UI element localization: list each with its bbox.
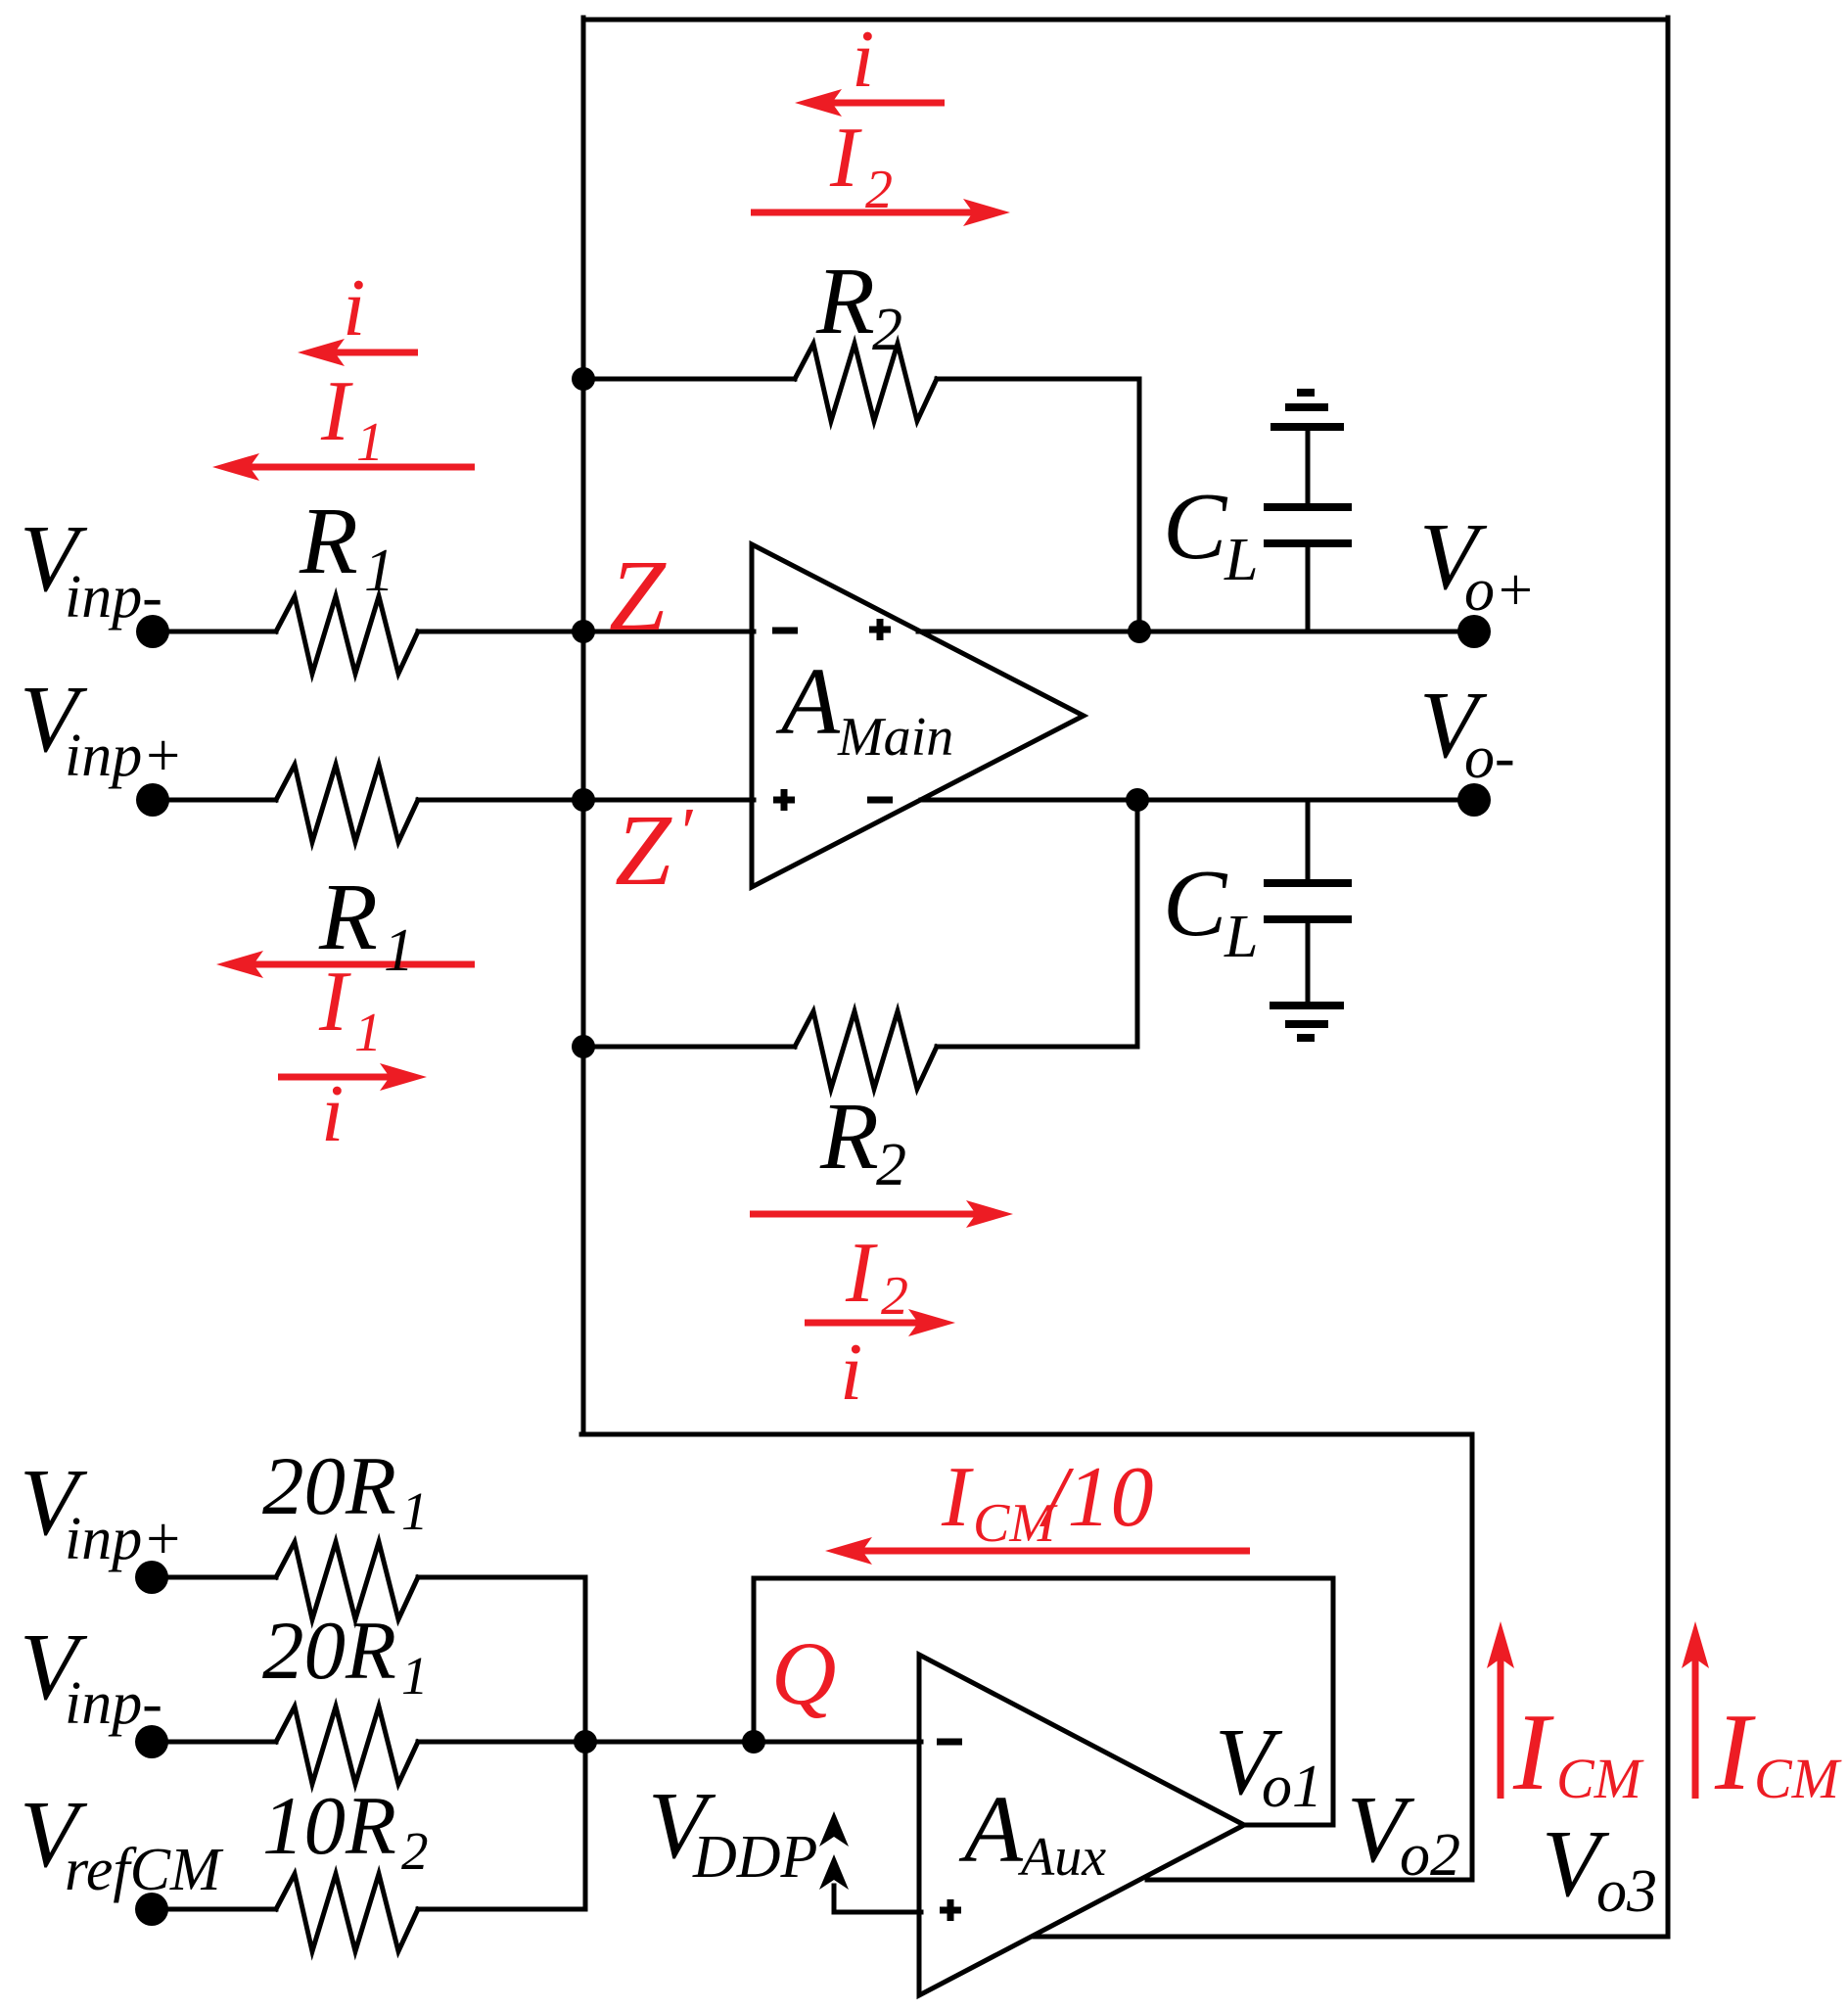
capacitor CL bottom plates xyxy=(1264,883,1352,919)
terminal Vinp+ (aux) dot xyxy=(135,1561,168,1594)
capacitor CL bottom stem lower xyxy=(1306,919,1311,1005)
wire top border of outer feedback loop xyxy=(583,18,1668,23)
wire Vinp- aux terminal to resistor 20R1 lower xyxy=(156,1740,276,1745)
svg-text:i: i xyxy=(321,1068,344,1159)
red arrow I2 (top R2, rightward) xyxy=(751,210,994,216)
wire output Vo2 from A_Aux slope xyxy=(1147,1878,1472,1883)
svg-text:I: I xyxy=(941,1450,974,1545)
terminal VrefCM dot xyxy=(135,1893,168,1926)
node Z-prime junction xyxy=(572,788,595,812)
svg-text:A: A xyxy=(775,649,841,755)
svg-text:1: 1 xyxy=(364,538,394,604)
red arrow i (top R2, leftward) xyxy=(810,100,945,107)
node Q junction xyxy=(742,1730,765,1754)
wire node to resistor R2 bottom xyxy=(583,1045,795,1050)
svg-text:1: 1 xyxy=(354,1003,382,1063)
svg-text:refCM: refCM xyxy=(65,1837,224,1903)
svg-text:1: 1 xyxy=(356,412,384,473)
wire 10R2 to bus corner xyxy=(418,1907,585,1912)
svg-text:R: R xyxy=(819,1084,879,1190)
resistor 20R1 (lower) xyxy=(276,1707,418,1784)
svg-text:CM: CM xyxy=(1556,1747,1644,1810)
wire op-amp output+ to Vo+ terminal xyxy=(918,630,1474,634)
svg-text:DDP: DDP xyxy=(692,1824,817,1891)
wire resistor R2 top to corner xyxy=(937,377,1139,382)
red arrow ICM inner (upward) xyxy=(1498,1637,1504,1799)
svg-text:1: 1 xyxy=(384,917,414,984)
resistor 20R1 (upper) xyxy=(276,1542,418,1619)
svg-text:o-: o- xyxy=(1464,725,1515,791)
junction R2 bottom / left bus xyxy=(572,1035,595,1058)
red arrow ICM outer (upward) xyxy=(1692,1637,1699,1799)
wire node to resistor R2 top xyxy=(583,377,795,382)
op-amp A_Main triangle xyxy=(752,544,1084,887)
svg-text:C: C xyxy=(1163,851,1228,957)
svg-text:1: 1 xyxy=(401,1646,429,1706)
terminal Vinp- (top) dot xyxy=(136,615,169,648)
red arrow I1 (top R1, leftward) xyxy=(228,464,475,471)
terminal Vinp+ (top) dot xyxy=(136,783,169,817)
wire Vo1 feedback loop top xyxy=(754,1576,1333,1581)
wire 20R1 upper to bus corner xyxy=(418,1575,585,1580)
resistor R2 (top feedback) xyxy=(795,344,937,421)
wire Vo2 vertical riser xyxy=(1470,1434,1475,1880)
red arrow i (bottom R2, rightward) xyxy=(805,1320,940,1327)
svg-text:A: A xyxy=(958,1777,1024,1883)
svg-text:2: 2 xyxy=(881,1266,908,1327)
svg-text:′: ′ xyxy=(677,795,694,870)
red arrow I1 (bottom R1, leftward) xyxy=(232,961,475,968)
plus sign at A_Aux noninverting input xyxy=(940,1899,961,1921)
resistor R2 (bottom feedback) xyxy=(795,1011,937,1089)
wire node Q riser of Vo1 feedback loop xyxy=(752,1578,757,1742)
svg-text:R: R xyxy=(299,489,358,594)
svg-text:Z: Z xyxy=(615,794,672,907)
red arrow I2 (bottom R2, rightward) xyxy=(750,1211,997,1218)
svg-text:L: L xyxy=(1224,904,1258,970)
wire right border of outer loop (Vo3 net) xyxy=(1666,18,1671,1937)
minus sign at A_Main negative output xyxy=(867,797,893,804)
svg-text:CM: CM xyxy=(1754,1747,1842,1810)
svg-text:inp-: inp- xyxy=(65,1670,162,1737)
wire op-amp output- to Vo- terminal xyxy=(921,798,1474,803)
wire R1 bottom to node Z-prime and op-amp noninverting input xyxy=(418,798,754,803)
junction aux bus xyxy=(574,1730,597,1754)
svg-text:inp+: inp+ xyxy=(65,723,183,789)
svg-text:2: 2 xyxy=(876,1132,906,1198)
svg-text:2: 2 xyxy=(872,297,902,363)
svg-text:1: 1 xyxy=(401,1481,429,1541)
minus sign at A_Aux inverting input xyxy=(937,1739,962,1746)
svg-text:I: I xyxy=(829,111,862,206)
wire aux summing bus vertical xyxy=(583,1577,588,1909)
svg-text:2: 2 xyxy=(865,160,893,220)
svg-text:20R: 20R xyxy=(262,1605,396,1697)
wire output Vo3 from A_Aux slope to outer loop xyxy=(1035,1935,1668,1940)
terminal Vo- dot xyxy=(1457,783,1491,817)
wire A_Aux noninverting input to VDDP xyxy=(834,1886,921,1912)
svg-text:Main: Main xyxy=(837,707,953,768)
svg-text:2: 2 xyxy=(401,1821,429,1881)
junction R2 top / left bus xyxy=(572,367,595,391)
ground symbol above CL top (inverted) xyxy=(1270,393,1344,427)
svg-text:inp+: inp+ xyxy=(65,1506,183,1572)
op-amp A_Aux triangle xyxy=(919,1655,1244,1995)
wire VrefCM terminal to resistor 10R2 xyxy=(156,1907,276,1912)
wire R2 top drop to output node xyxy=(1137,379,1142,631)
plus sign at A_Main noninverting input xyxy=(773,789,795,811)
wire R1 top to node Z and op-amp inverting input xyxy=(418,630,754,634)
svg-text:i: i xyxy=(840,1327,862,1418)
wire R2 bottom rise to output node xyxy=(1135,800,1140,1047)
svg-text:/10: /10 xyxy=(1039,1450,1153,1545)
wire resistor R2 bottom to corner xyxy=(937,1045,1137,1050)
resistor 10R2 xyxy=(276,1874,418,1951)
capacitor CL top stem upper xyxy=(1306,427,1311,507)
svg-text:20R: 20R xyxy=(262,1440,396,1532)
red arrow i (top R1, leftward) xyxy=(313,350,418,356)
svg-text:o+: o+ xyxy=(1464,557,1536,624)
svg-text:10R: 10R xyxy=(262,1780,396,1872)
minus sign at A_Main inverting input xyxy=(772,628,798,634)
svg-text:I: I xyxy=(1512,1692,1554,1813)
wire 20R1 lower through node to A_Aux inverting input xyxy=(418,1740,921,1745)
svg-text:I: I xyxy=(320,364,353,459)
svg-text:C: C xyxy=(1163,474,1228,580)
svg-text:I: I xyxy=(1714,1692,1756,1813)
svg-text:i: i xyxy=(343,262,365,353)
ground symbol below CL bottom xyxy=(1270,1005,1344,1038)
plus sign at A_Main positive output xyxy=(869,619,891,640)
VDDP supply double arrowhead xyxy=(819,1811,849,1847)
resistor R1 (top input) xyxy=(276,596,418,674)
svg-text:L: L xyxy=(1224,527,1258,593)
terminal Vo+ dot xyxy=(1457,615,1491,648)
terminal Vinp- (aux) dot xyxy=(135,1725,168,1758)
capacitor CL bottom stem upper xyxy=(1306,800,1311,883)
resistor R1 (bottom input) xyxy=(276,765,418,842)
wire Vo1 feedback loop right drop xyxy=(1331,1578,1336,1825)
junction output- / R2 xyxy=(1126,788,1149,812)
svg-text:o3: o3 xyxy=(1596,1858,1657,1925)
node Z junction xyxy=(572,620,595,643)
wire common-mode sense bottom horizontal xyxy=(581,1432,1472,1437)
svg-text:inp-: inp- xyxy=(65,564,162,631)
wire Vinp- terminal to resistor R1 top xyxy=(157,630,276,634)
red arrow i (bottom R1, rightward) xyxy=(278,1074,411,1081)
svg-text:Aux: Aux xyxy=(1017,1827,1106,1888)
capacitor CL top plates xyxy=(1264,507,1352,543)
svg-text:I: I xyxy=(318,955,351,1050)
wire left vertical bus (Z / Z-prime / feedback node column) xyxy=(581,18,586,1434)
red arrow ICM/10 (leftward) xyxy=(841,1548,1250,1555)
svg-text:I: I xyxy=(845,1226,878,1321)
junction output+ / R2 xyxy=(1128,620,1151,643)
wire A_Aux output Vo1 to feedback loop xyxy=(1244,1823,1333,1828)
wire Vinp+ terminal to resistor R1 bottom xyxy=(157,798,276,803)
wire Vinp+ aux terminal to resistor 20R1 upper xyxy=(156,1575,276,1580)
svg-text:o2: o2 xyxy=(1400,1822,1460,1889)
svg-text:i: i xyxy=(852,14,874,105)
svg-text:Z: Z xyxy=(609,539,667,652)
svg-text:o1: o1 xyxy=(1262,1754,1322,1820)
svg-text:Q: Q xyxy=(771,1623,836,1723)
svg-text:R: R xyxy=(815,249,875,354)
capacitor CL top stem lower xyxy=(1306,545,1311,631)
